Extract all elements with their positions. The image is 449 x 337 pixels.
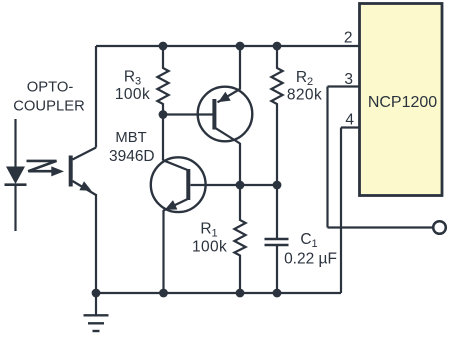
wire pin 3 to output terminal xyxy=(328,226,434,228)
node ground rail / C1 junction xyxy=(273,289,282,298)
svg-text:NCP1200: NCP1200 xyxy=(368,94,437,111)
wire top rail (VCC net, pin 2 net) xyxy=(96,45,360,47)
optocoupler phototransistor emitter lead xyxy=(73,181,97,195)
wire Q2 emitter to top rail xyxy=(239,46,241,90)
optocoupler LED triangle xyxy=(6,167,25,185)
optocoupler LED anode wire xyxy=(14,119,16,168)
svg-text:100k: 100k xyxy=(115,86,150,103)
resistor R1 xyxy=(234,185,245,293)
wire Q2 collector to mid node xyxy=(239,143,241,185)
node top rail / R3 junction xyxy=(159,42,168,51)
wire Q1 base to mid rail xyxy=(191,184,278,186)
wire pin 3 vertical xyxy=(326,87,328,228)
node ground rail / Q1 emitter junction xyxy=(159,289,168,298)
wire R3 bottom to Q2 base xyxy=(163,113,213,115)
svg-text:OPTO-: OPTO- xyxy=(27,80,74,96)
wire optocoupler collector vertical xyxy=(95,46,97,148)
resistor R2 xyxy=(271,46,282,185)
optocoupler phototransistor collector lead xyxy=(73,148,97,160)
node R3 bottom / Q2 base junction xyxy=(159,110,168,119)
svg-text:100k: 100k xyxy=(192,239,227,256)
output terminal circle xyxy=(433,221,446,234)
node ground rail / opto emitter junction xyxy=(92,289,101,298)
wire optocoupler emitter vertical to ground rail xyxy=(95,194,97,293)
svg-text:R2: R2 xyxy=(296,69,313,88)
wire bottom ground rail xyxy=(96,292,341,294)
node top rail / R2 junction xyxy=(273,42,282,51)
svg-text:MBT: MBT xyxy=(115,130,146,146)
wire pin 3 horizontal from IC xyxy=(328,85,360,87)
node ground rail / R1 junction xyxy=(236,289,245,298)
optocoupler LED cathode bar xyxy=(5,183,27,186)
IC U1 NCP1200 body xyxy=(360,4,443,196)
resistor R3 xyxy=(157,46,168,115)
svg-text:3: 3 xyxy=(344,71,353,88)
svg-text:COUPLER: COUPLER xyxy=(13,99,85,115)
capacitor C1 xyxy=(265,185,289,293)
node R2 bottom / C1 top junction xyxy=(273,181,282,190)
wire pin 4 horizontal from IC xyxy=(341,126,360,128)
optocoupler LED cathode wire xyxy=(14,185,16,231)
wire R3 bottom to Q1 collector xyxy=(162,115,164,161)
wire Q1 emitter vertical to ground rail xyxy=(162,210,164,293)
svg-text:820k: 820k xyxy=(287,87,322,104)
transistor Q2 (PNP, MBT3946D half) xyxy=(198,87,253,144)
svg-text:0.22 µF: 0.22 µF xyxy=(284,251,337,268)
optocoupler light arrow xyxy=(27,161,65,177)
node Q2 collector / Q1 base / R1 junction xyxy=(236,181,245,190)
wire pin 4 vertical to ground rail xyxy=(340,128,342,294)
svg-text:C1: C1 xyxy=(300,231,317,250)
svg-text:2: 2 xyxy=(344,29,353,46)
ground symbol xyxy=(84,293,109,331)
svg-text:3946D: 3946D xyxy=(109,148,155,165)
node top rail / Q2 emitter junction xyxy=(236,42,245,51)
svg-text:4: 4 xyxy=(345,112,354,129)
transistor Q1 (NPN, MBT3946D half) xyxy=(151,157,206,212)
svg-text:R1: R1 xyxy=(200,221,217,240)
optocoupler phototransistor emitter arrow xyxy=(79,181,91,191)
optocoupler phototransistor base bar xyxy=(69,156,73,187)
